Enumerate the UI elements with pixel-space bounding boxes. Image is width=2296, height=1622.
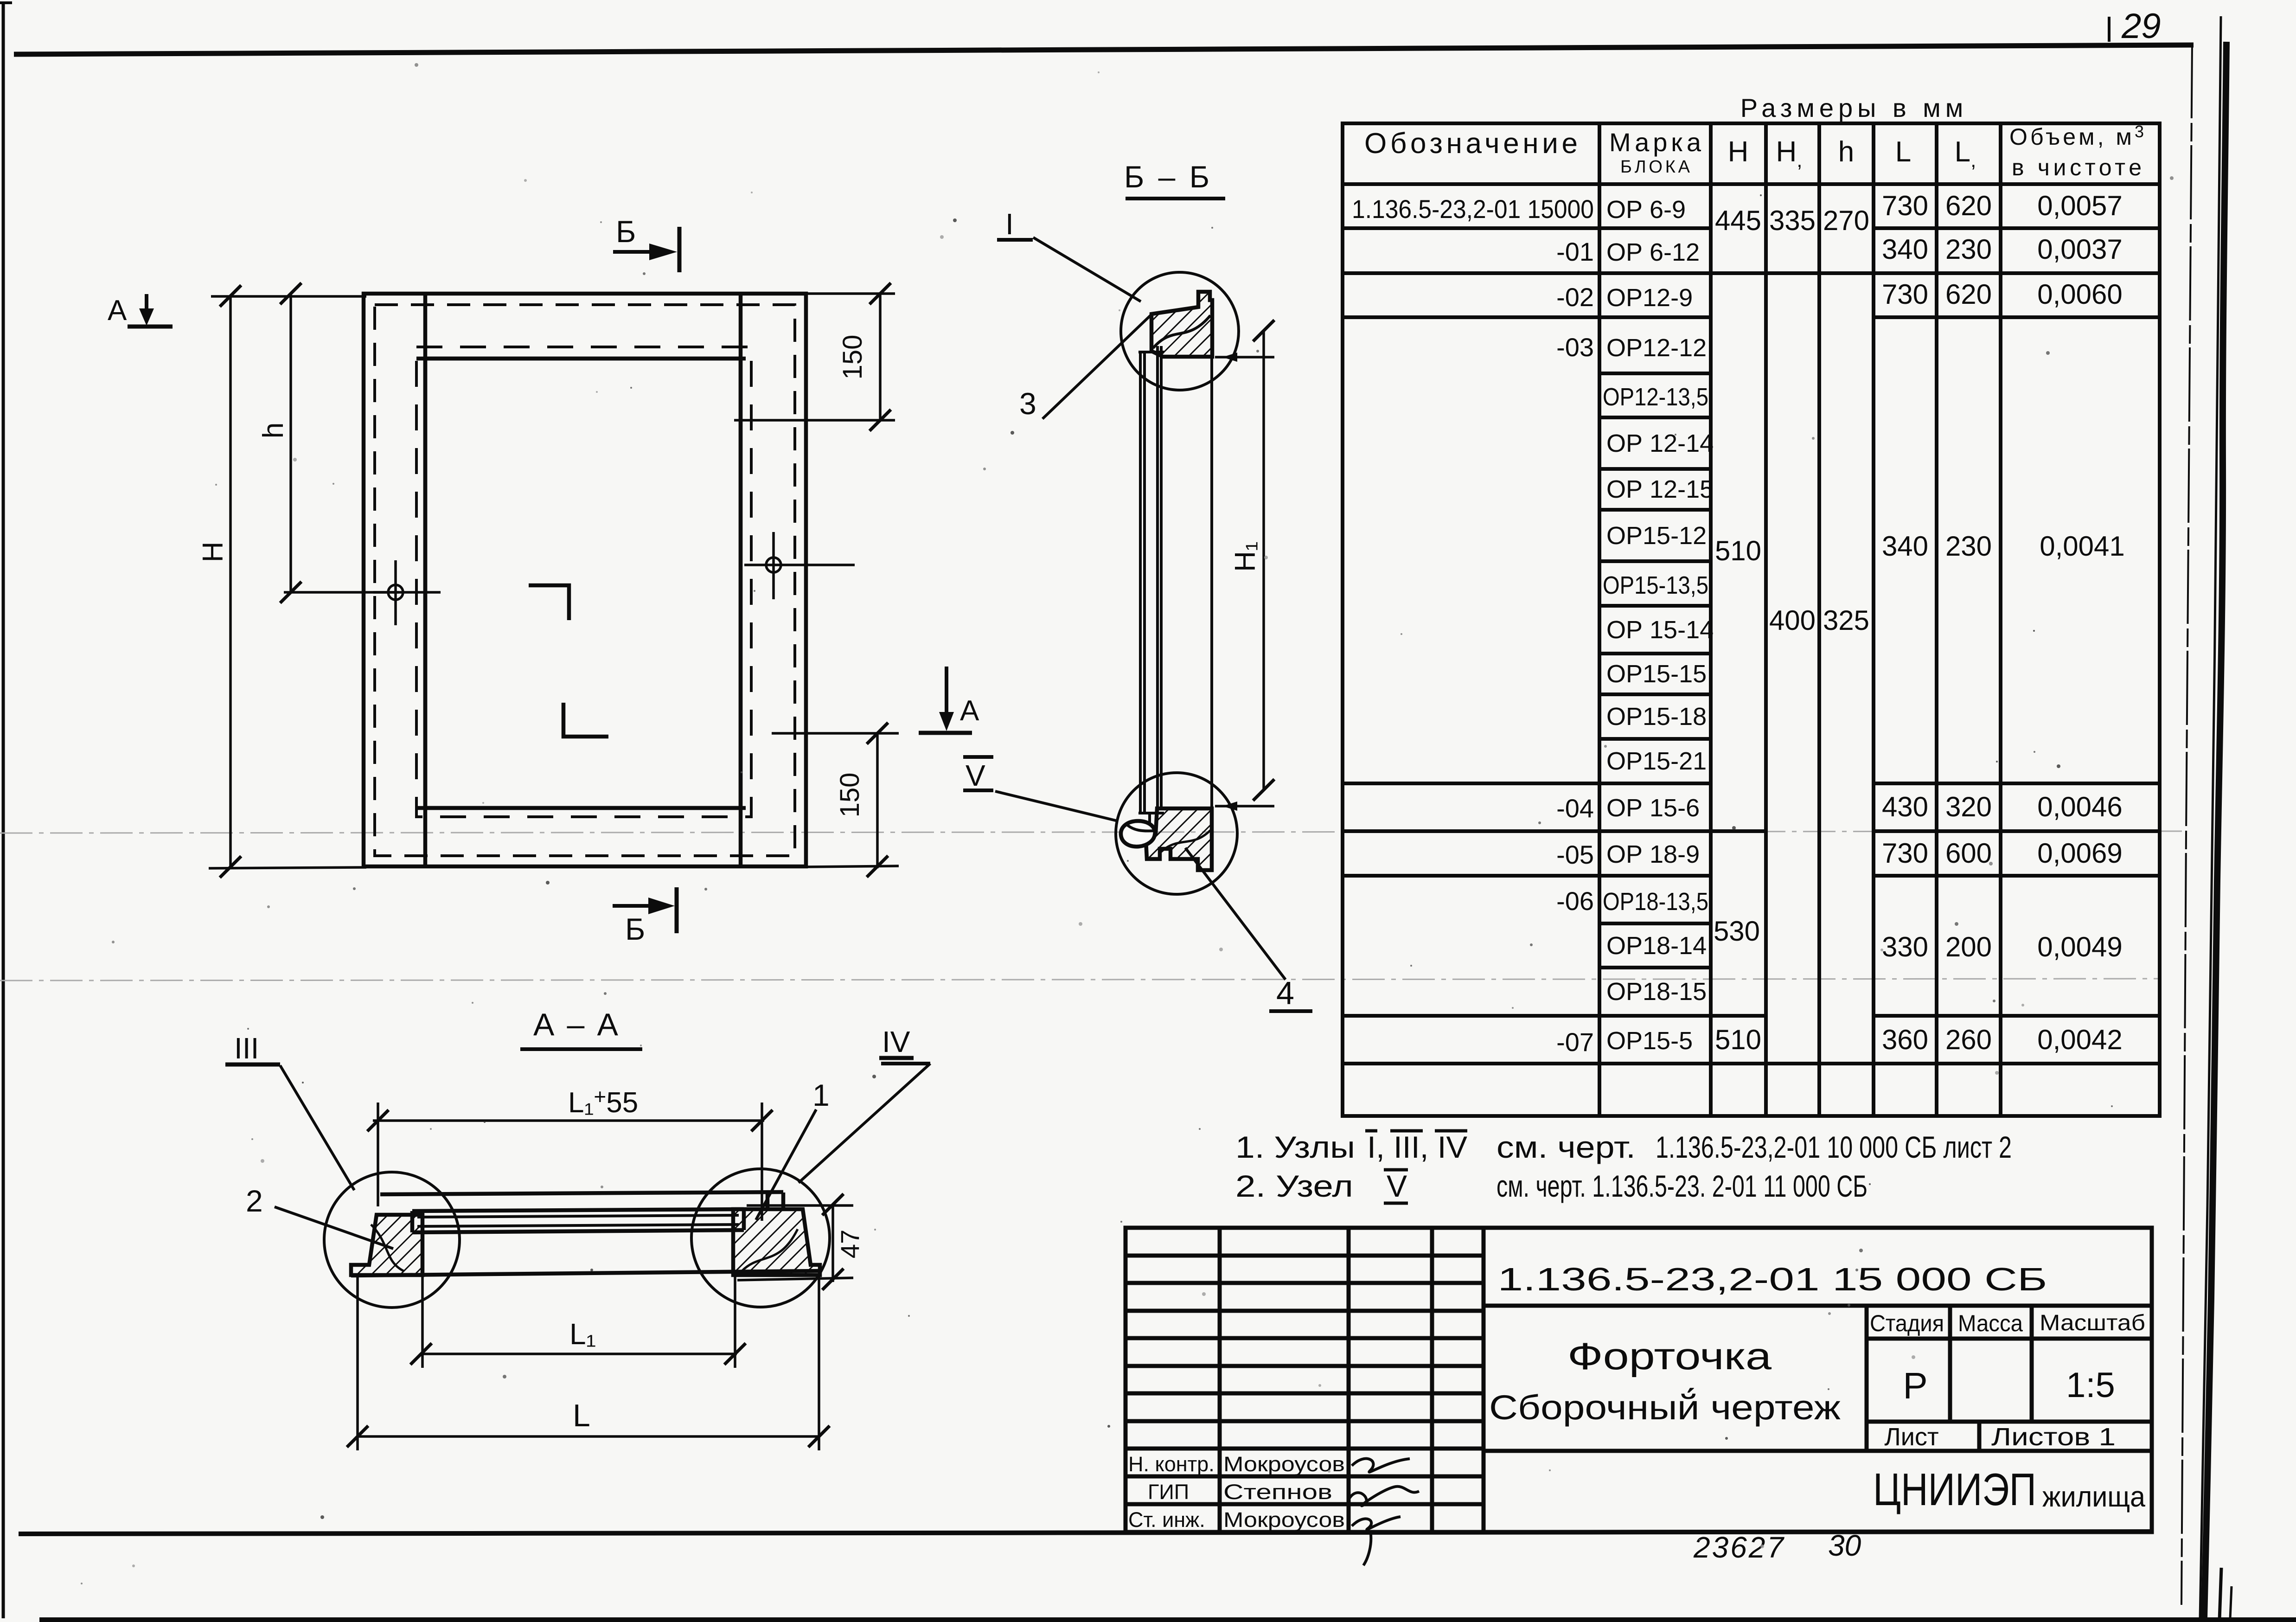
dimension H1 [1215, 320, 1274, 811]
marka sub row lines block -06 [1599, 923, 1711, 968]
svg-text:260: 260 [1945, 1024, 1992, 1055]
svg-text:ОР12-13,5: ОР12-13,5 [1603, 383, 1708, 411]
table outer border [1343, 123, 2160, 1116]
corner mark bottom [563, 703, 608, 737]
bottom member grain [1159, 830, 1210, 853]
svg-text:730: 730 [1882, 279, 1928, 310]
svg-text:-07: -07 [1556, 1027, 1594, 1057]
svg-text:-05: -05 [1556, 840, 1594, 869]
section mark A bottom right [919, 667, 979, 733]
svg-text:ОР 15-14: ОР 15-14 [1606, 616, 1714, 644]
signature row labels [1128, 1452, 1345, 1532]
list row top [1867, 1420, 2152, 1424]
hidden edge dashed rectangle outer [375, 305, 795, 856]
svg-text:620: 620 [1945, 190, 1992, 221]
svg-text:L₁: L₁ [569, 1317, 596, 1351]
svg-text:Б – Б: Б – Б [1124, 160, 1212, 194]
svg-text:ОР15-12: ОР15-12 [1606, 522, 1707, 550]
sash end right [742, 1209, 746, 1230]
svg-text:47: 47 [835, 1230, 864, 1258]
svg-text:Масса: Масса [1958, 1310, 2023, 1336]
svg-text:ОР 12-15: ОР 12-15 [1606, 475, 1714, 503]
h column values [1823, 205, 1869, 636]
svg-text:ОР18-14: ОР18-14 [1606, 932, 1707, 960]
marka sub row lines [1599, 373, 1711, 739]
section mark B top [613, 214, 679, 272]
signature squiggles [1349, 1459, 1419, 1565]
svg-text:510: 510 [1715, 535, 1761, 566]
svg-text:-04: -04 [1556, 794, 1594, 823]
svg-text:0,0046: 0,0046 [2037, 791, 2123, 822]
svg-text:ОР15-18: ОР15-18 [1606, 703, 1707, 731]
signature row lines [1126, 1256, 1484, 1504]
dimension 47 [737, 1194, 864, 1290]
svg-text:200: 200 [1945, 931, 1992, 962]
svg-text:-03: -03 [1556, 333, 1594, 362]
corner mark top [529, 585, 569, 620]
hidden sash dashed rectangle inner [416, 347, 751, 817]
svg-text:23627: 23627 [1693, 1531, 1785, 1564]
designation column texts [1352, 194, 1594, 1057]
svg-text:Обозначение: Обозначение [1364, 128, 1578, 160]
svg-text:730: 730 [1882, 838, 1928, 869]
H1 column values [1769, 205, 1816, 636]
leader label 3 [1019, 314, 1151, 421]
svg-text:510: 510 [1715, 1024, 1761, 1055]
svg-text:V: V [966, 759, 985, 792]
svg-text:340: 340 [1882, 531, 1928, 562]
svg-text:150: 150 [838, 335, 868, 380]
column line H1 [1764, 123, 1768, 1116]
right page border [2181, 44, 2192, 1605]
opening bottom line extension [416, 806, 746, 810]
svg-text:Мокроусов: Мокроусов [1223, 1508, 1345, 1532]
sash stile line a [1139, 353, 1142, 813]
mass/scale divider [2030, 1306, 2034, 1422]
svg-text:330: 330 [1882, 931, 1928, 962]
svg-text:30: 30 [1828, 1529, 1861, 1562]
svg-text:IV: IV [882, 1025, 910, 1058]
dimension L [347, 1276, 830, 1450]
svg-text:Б: Б [616, 214, 636, 249]
svg-text:0,0060: 0,0060 [2037, 279, 2123, 310]
marka column texts [1603, 196, 1714, 1055]
sash top cap [1138, 351, 1164, 353]
section title underline [520, 1047, 642, 1051]
svg-text:1. Узлы: 1. Узлы [1235, 1130, 1355, 1164]
sash end left [410, 1211, 415, 1232]
scan artifact faint line 2 [0, 979, 2159, 981]
svg-text:620: 620 [1945, 279, 1992, 310]
svg-text:h: h [257, 423, 289, 438]
frame face line top [380, 1192, 783, 1194]
L column values [1882, 190, 1928, 1055]
frame face line bottom [351, 1271, 819, 1276]
list/listov divider [1977, 1422, 1982, 1451]
front view [108, 214, 979, 946]
svg-text:A: A [108, 295, 127, 327]
left frame member section [351, 1215, 422, 1275]
hinge axis left [373, 560, 441, 625]
row line -05 top [1343, 829, 2160, 833]
svg-text:A: A [960, 695, 979, 727]
row line -07 top [1343, 1014, 2160, 1018]
svg-text:1:5: 1:5 [2066, 1366, 2115, 1405]
svg-text:в чистоте: в чистоте [2012, 154, 2142, 180]
svg-text:Степнов: Степнов [1223, 1480, 1332, 1504]
svg-text:H: H [197, 542, 229, 563]
svg-text:-06: -06 [1556, 886, 1594, 916]
leader label 2 [246, 1184, 393, 1249]
svg-text:530: 530 [1714, 916, 1760, 947]
dimension L1 [410, 1276, 746, 1368]
detail label III [225, 1032, 354, 1190]
right member grain [742, 1229, 798, 1271]
svg-text:ОР12-9: ОР12-9 [1606, 284, 1693, 312]
svg-text:-01: -01 [1556, 237, 1594, 266]
notes [1235, 1130, 2012, 1203]
frame member edge right [739, 294, 743, 866]
svg-text:БЛОКА: БЛОКА [1620, 157, 1690, 177]
svg-text:600: 600 [1945, 838, 1992, 869]
svg-text:Сборочный́ чертеж: Сборочный́ чертеж [1489, 1388, 1841, 1427]
svg-text:150: 150 [835, 773, 865, 818]
binding strip thin edge line [2200, 16, 2221, 1619]
svg-text:ОР15-15: ОР15-15 [1606, 660, 1707, 688]
svg-text:Ст. инж.: Ст. инж. [1128, 1508, 1205, 1532]
scan artifact faint line 1 [0, 831, 2182, 833]
frame outer rectangle [364, 294, 806, 866]
latch hook [1148, 813, 1151, 824]
svg-text:I, III, IV: I, III, IV [1367, 1130, 1467, 1164]
binding strip echo marks [2219, 1568, 2221, 1620]
svg-text:230: 230 [1945, 531, 1992, 562]
svg-text:Листов 1: Листов 1 [1991, 1423, 2116, 1451]
svg-text:ОР 15-6: ОР 15-6 [1606, 794, 1700, 822]
page number tick [2108, 17, 2111, 42]
glass line a [1156, 346, 1159, 809]
section mark B bottom [613, 887, 677, 946]
svg-text:1.136.5-23,2-01 15000: 1.136.5-23,2-01 15000 [1352, 194, 1594, 224]
section B-B [963, 160, 1312, 1011]
svg-text:320: 320 [1945, 791, 1992, 822]
volume column values [2037, 190, 2125, 1055]
hinge axis right [744, 532, 855, 599]
header texts [1364, 122, 2144, 180]
column line L1 [1935, 123, 1938, 1116]
svg-text:см. черт.: см. черт. [1497, 1130, 1636, 1164]
svg-text:h: h [1838, 136, 1854, 168]
svg-text:V: V [1387, 1169, 1407, 1203]
svg-text:ОР 6-9: ОР 6-9 [1606, 196, 1686, 224]
svg-text:Лист: Лист [1884, 1423, 1938, 1451]
svg-text:4: 4 [1276, 975, 1294, 1011]
detail label V [963, 757, 1118, 821]
section mark A top left [108, 294, 173, 327]
glass line b [1160, 346, 1163, 809]
svg-text:340: 340 [1882, 234, 1928, 265]
svg-text:Стадия: Стадия [1870, 1310, 1944, 1336]
svg-text:400: 400 [1769, 605, 1816, 636]
svg-text:жилища: жилища [2042, 1481, 2145, 1513]
svg-text:ОР15-21: ОР15-21 [1606, 747, 1707, 775]
sash rail bottom [412, 1230, 744, 1232]
svg-text:1.136.5-23,2-01 10 000 СБ лист: 1.136.5-23,2-01 10 000 СБ лист 2 [1656, 1130, 2012, 1164]
stage/mass divider [1948, 1306, 1952, 1422]
numeral overlines line 1 [1365, 1129, 1377, 1133]
right member tab [767, 1192, 783, 1209]
svg-text:0,0041: 0,0041 [2040, 531, 2125, 562]
column line marka [1598, 123, 1601, 1116]
svg-text:Р: Р [1903, 1365, 1927, 1406]
left border line [2, 2, 5, 1618]
column line L [1872, 123, 1875, 1116]
section title underline [1126, 197, 1225, 200]
svg-text:ОР 12-14: ОР 12-14 [1606, 430, 1714, 457]
svg-text:430: 430 [1882, 791, 1928, 822]
dimension h [257, 283, 399, 603]
svg-text:29: 29 [2121, 6, 2161, 46]
detail circle III [324, 1172, 460, 1308]
detail circle V [1116, 773, 1237, 894]
svg-text:360: 360 [1882, 1024, 1928, 1055]
svg-text:A – A: A – A [533, 1007, 621, 1042]
svg-text:-02: -02 [1556, 282, 1594, 312]
svg-text:0,0069: 0,0069 [2037, 838, 2123, 869]
leader label 4 [1185, 848, 1312, 1011]
svg-text:335: 335 [1769, 205, 1816, 236]
dimension L1+55 [367, 1084, 773, 1221]
sash rail top [412, 1209, 744, 1211]
signature column line 3 [1430, 1228, 1434, 1532]
table grid [1343, 123, 2160, 1116]
svg-text:445: 445 [1715, 205, 1761, 236]
svg-text:ОР15-5: ОР15-5 [1606, 1027, 1693, 1055]
bottom frame line [19, 1532, 2153, 1534]
title block [1126, 1228, 2152, 1565]
column line h [1817, 123, 1821, 1116]
row line -04 top [1343, 782, 2160, 785]
detail label IV [799, 1025, 930, 1183]
svg-text:Б: Б [625, 912, 645, 946]
detail circle I [1121, 272, 1239, 390]
svg-text:Размеры в мм: Размеры в мм [1740, 93, 1968, 122]
bottom frame member section [1146, 808, 1212, 870]
opening top line extension [416, 357, 746, 361]
svg-text:ОР18-15: ОР18-15 [1606, 978, 1707, 1006]
svg-text:ГИП: ГИП [1148, 1480, 1189, 1504]
svg-text:0,0057: 0,0057 [2037, 190, 2123, 221]
row line 2 [1343, 271, 2160, 275]
svg-text:H₁: H₁ [1229, 541, 1261, 572]
frame member edge left [423, 294, 428, 866]
numeral V overline and underline [1384, 1168, 1408, 1172]
svg-text:ОР 6-12: ОР 6-12 [1606, 238, 1700, 266]
row line 3 [1343, 315, 2160, 319]
svg-text:230: 230 [1945, 234, 1992, 265]
svg-text:ОР18-13,5: ОР18-13,5 [1603, 888, 1708, 916]
svg-text:730: 730 [1882, 190, 1928, 221]
leader label 1 [756, 1078, 830, 1220]
org row top [1484, 1449, 2152, 1453]
sash stile line b [1143, 353, 1146, 813]
svg-text:0,0049: 0,0049 [2037, 931, 2123, 962]
svg-text:ОР 18-9: ОР 18-9 [1606, 840, 1700, 868]
signature column line 2 [1347, 1228, 1351, 1532]
column line H [1709, 123, 1713, 1116]
header bottom line [1343, 182, 2160, 186]
svg-text:0,0037: 0,0037 [2037, 234, 2123, 265]
dimension 150 top right [734, 283, 895, 431]
section A-A [225, 1007, 930, 1450]
column line volume [1999, 123, 2002, 1116]
svg-text:ОР15-13,5: ОР15-13,5 [1603, 571, 1708, 599]
left member grain [371, 1225, 403, 1271]
designation box bottom [1484, 1304, 2152, 1308]
svg-text:2: 2 [246, 1184, 263, 1218]
binding strip heavy wavy line [2204, 42, 2226, 1619]
title block outer box [1126, 1228, 2152, 1532]
row line -07 bottom [1343, 1062, 2160, 1065]
H column values [1714, 205, 1761, 1055]
svg-text:Марка: Марка [1609, 128, 1701, 157]
glass line 2 [417, 1225, 739, 1226]
svg-text:0,0042: 0,0042 [2037, 1024, 2123, 1055]
sash bottom cap [1138, 812, 1164, 814]
row line -06 top [1343, 874, 2160, 878]
svg-text:325: 325 [1823, 605, 1869, 636]
svg-text:L: L [1895, 136, 1911, 168]
signature column line 1 [1218, 1228, 1222, 1532]
right frame member section [733, 1209, 820, 1275]
svg-text:I: I [1005, 207, 1014, 241]
stage header bottom [1867, 1337, 2152, 1341]
top border line [14, 45, 2194, 54]
row line 1 [1343, 226, 2160, 230]
opening inner rectangle [425, 359, 741, 808]
signature table right edge [1482, 1228, 1486, 1532]
stage area left edge [1865, 1306, 1869, 1451]
svg-text:1: 1 [812, 1078, 830, 1112]
top frame member section [1151, 292, 1212, 357]
dimension H [197, 285, 366, 878]
top member grain line [1153, 315, 1210, 348]
detail label I [997, 207, 1141, 301]
svg-text:Форточка: Форточка [1567, 1335, 1772, 1378]
left border top tick [0, 1, 12, 4]
table [1343, 93, 2160, 1116]
svg-text:Н. контр.: Н. контр. [1128, 1452, 1215, 1476]
svg-text:Мокроусов: Мокроусов [1223, 1452, 1345, 1476]
svg-text:III: III [234, 1032, 259, 1065]
svg-text:ОР12-12: ОР12-12 [1606, 334, 1707, 362]
svg-text:270: 270 [1823, 205, 1869, 236]
title block grid [1126, 1228, 2152, 1532]
svg-text:2. Узел: 2. Узел [1235, 1169, 1353, 1203]
L1 column values [1945, 190, 1992, 1055]
svg-text:см. черт. 1.136.5-23. 2-01 11: см. черт. 1.136.5-23. 2-01 11 000 СБ [1497, 1169, 1867, 1203]
svg-text:Масштаб: Масштаб [2040, 1311, 2145, 1335]
frame projection line right [1210, 357, 1213, 808]
detail circle IV [691, 1169, 830, 1307]
bottom scan edge [39, 1617, 2296, 1622]
glass line 1 [417, 1215, 739, 1217]
svg-text:L: L [573, 1398, 590, 1433]
svg-text:1.136.5-23,2-01 15 000 СБ: 1.136.5-23,2-01 15 000 СБ [1498, 1261, 2047, 1297]
svg-text:3: 3 [1019, 386, 1036, 421]
svg-text:ЦНИИЭП: ЦНИИЭП [1873, 1464, 2036, 1515]
svg-text:H: H [1728, 136, 1749, 168]
dimension 150 bottom right [772, 723, 899, 877]
